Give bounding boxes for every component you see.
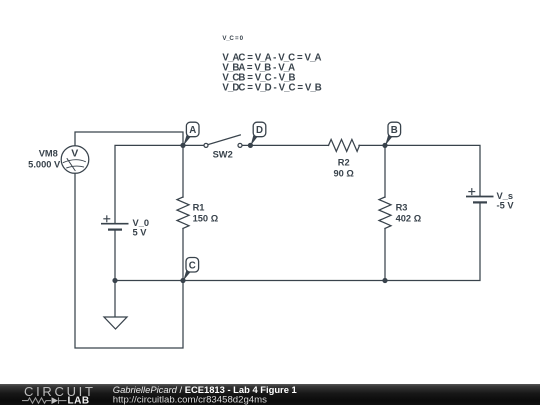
- resistor R2 90 Ohm: [329, 139, 360, 151]
- voltmeter VM8 circle: [61, 146, 89, 174]
- svg-text:-5 V: -5 V: [497, 201, 515, 211]
- wire node A to switch left post: [183, 144, 204, 146]
- switch SW2 right post: [238, 143, 242, 147]
- battery V_0 plus sign: [103, 215, 110, 222]
- wire V_s bottom to bottom rail: [385, 203, 480, 281]
- svg-text:V_0: V_0: [133, 218, 150, 228]
- svg-text:D: D: [256, 125, 263, 136]
- wire VM8 bottom measurement loop to node C: [75, 174, 183, 349]
- svg-text:VM8: VM8: [39, 148, 58, 158]
- svg-text:R2: R2: [338, 157, 350, 167]
- svg-text:R3: R3: [396, 202, 408, 212]
- node B flag: [385, 122, 401, 145]
- svg-text:LAB: LAB: [68, 396, 90, 405]
- svg-text:SW2: SW2: [213, 150, 233, 160]
- junction node D: [248, 143, 253, 148]
- wire bottom rail B branch to C to battery: [115, 280, 385, 282]
- resistor R1 150 Ohm: [177, 197, 189, 228]
- node C flag: [183, 258, 198, 281]
- wire R1 down to node C: [182, 229, 184, 281]
- wire R2 to node B to right corner: [359, 145, 480, 196]
- wire battery bottom lead: [114, 230, 116, 281]
- wire R3 down to bottom rail: [384, 229, 386, 281]
- node A flag: [183, 122, 199, 145]
- svg-text:402 Ω: 402 Ω: [396, 214, 422, 224]
- svg-text:V_s: V_s: [497, 191, 514, 201]
- junction battery-ground: [112, 278, 117, 283]
- node D flag: [251, 122, 266, 145]
- svg-text:A: A: [189, 125, 196, 136]
- switch SW2 left post: [204, 143, 208, 147]
- resistor R3 402 Ohm: [379, 197, 391, 228]
- switch SW2 lever: [208, 135, 240, 145]
- wire node A down to R1: [182, 145, 184, 197]
- svg-text:V_C = 0: V_C = 0: [222, 35, 243, 42]
- junction node C: [180, 278, 185, 283]
- svg-text:http://circuitlab.com/cr83458d: http://circuitlab.com/cr83458d2g4ms: [113, 394, 267, 405]
- wire top loop VM8 to node A: [75, 132, 183, 146]
- wire switch right post to R2: [243, 144, 329, 146]
- junction R3 bottom: [382, 278, 387, 283]
- svg-text:150 Ω: 150 Ω: [193, 214, 219, 224]
- svg-text:R1: R1: [193, 202, 205, 212]
- battery V_s plus sign: [468, 188, 475, 195]
- CircuitLab logo resistor-diode glyph: [22, 397, 67, 404]
- battery V_0 5V plates: [101, 224, 129, 230]
- svg-text:V_DC = V_D - V_C = V_B: V_DC = V_D - V_C = V_B: [222, 83, 321, 94]
- svg-text:B: B: [391, 125, 398, 136]
- junction node A: [180, 143, 185, 148]
- wire node B down to R3: [384, 145, 386, 197]
- ground symbol: [104, 281, 127, 330]
- junction node B: [382, 143, 387, 148]
- wire battery top to node A: [115, 145, 183, 223]
- svg-text:C: C: [189, 260, 196, 271]
- svg-text:5.000 V: 5.000 V: [28, 160, 61, 170]
- battery V_s -5V plates: [466, 197, 494, 203]
- svg-text:V: V: [71, 147, 78, 159]
- voltmeter VM8 scale arcs and needle: [63, 158, 86, 171]
- svg-text:5 V: 5 V: [133, 228, 148, 238]
- svg-text:90 Ω: 90 Ω: [334, 169, 355, 179]
